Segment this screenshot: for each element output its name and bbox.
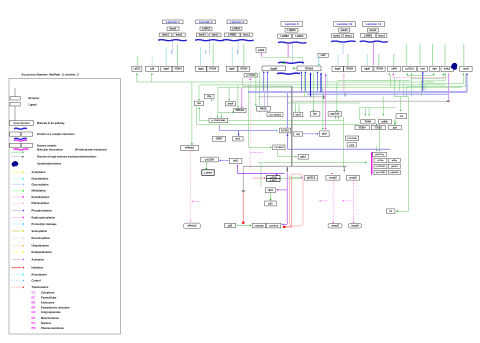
svg-text:lamc1: lamc1 [243,34,250,37]
arrowhead green into p53b [269,199,271,201]
node node p53 bottom [225,223,236,227]
legend Ubiquitination arrowhead [23,245,25,247]
arrowhead green up right boxes [442,73,444,74]
wire green fan y83.6 [425,83,463,85]
node node lama5 [368,28,379,32]
svg-text:ITGB4: ITGB4 [359,126,367,129]
node legend complex box 2 [22,132,33,136]
arrowhead magenta into complex [301,177,303,179]
svg-text:Palmitoylation: Palmitoylation [32,201,50,205]
arrowhead green below ppp b [338,118,340,119]
node node LOC1001 [374,164,387,168]
node node lama1 [167,27,179,31]
wire green corner LOC-gab1 [277,150,279,157]
node node lama5 [339,28,350,32]
wire blue branch to SHC [238,131,240,135]
wire green stub right [433,73,435,76]
arrowhead violet into PRKCA [241,107,243,108]
wire green vertical x217 [217,113,219,117]
legend Translocation arrowhead [23,286,25,288]
node node itga6 membrane [196,66,207,71]
svg-text:ap-100B: ap-100B [376,172,385,174]
wire green into pxn box [364,108,366,115]
wire green drop [151,73,153,82]
node node lamb1 [160,33,172,37]
node node akt1 [265,188,275,193]
arrowhead green between integrins [293,67,295,69]
svg-text:Extracellular: Extracellular [41,296,57,300]
node node lamb1 [197,33,209,37]
wire red into cdkn1a pair [285,226,292,228]
svg-text:pxn: pxn [393,126,398,129]
svg-text:gab1: gab1 [300,156,306,159]
arrowhead violet into akt box [276,175,278,176]
wire green vertical under ITGB4W b [313,72,315,110]
svg-text:smad3: smad3 [349,177,357,180]
wire magenta dash y200 b [343,200,351,202]
wire green vertical x199 [198,85,200,99]
legend Sumoylation arrowhead [23,230,25,232]
wire green stub row2c [395,120,397,123]
legend dissociation arrowhead [22,151,24,153]
legend Dephosphorylation arrowhead [23,216,25,218]
wire green erbb2 to membrane [261,56,302,58]
arrowhead green into fyn [313,110,315,111]
wire blue thick vertical x310 [310,74,312,97]
svg-text:lamb1: lamb1 [162,34,170,37]
wire blue ras to ptk2 [303,133,317,135]
node node lamc1 [173,33,185,37]
svg-text:itga6: itga6 [364,68,370,71]
arrowhead green into gab1 [296,156,297,158]
wire green stub above membrane [432,44,434,66]
wire green vertical x248 [247,85,249,147]
wire gray y86 [243,85,292,87]
svg-text:PRKCA: PRKCA [236,109,245,112]
arrowhead magenta up x326 [325,74,327,75]
node node ITGB4 membrane [172,66,184,71]
arrowhead green into yes1 b [298,111,300,112]
wire green vertical x383 [382,97,384,115]
arrowhead blue up into ITGB4 [317,72,319,73]
svg-text:lama1: lama1 [170,28,177,31]
svg-text:CY: CY [32,291,36,295]
svg-text:LAMB2: LAMB2 [228,34,237,37]
legend Ubiquitination wire [12,245,22,247]
wire green stub above membrane [212,44,214,66]
wire violet horizontal y173 [238,172,285,174]
svg-text:CDKN1A: CDKN1A [269,224,279,227]
node node erbb2 membrane [441,66,453,71]
wire dark stub to smad [343,166,345,170]
arrowhead dark into smad area [343,171,345,172]
wire green stub above membrane [243,44,245,66]
wire violet vertical x449 [448,75,450,101]
arrowhead blue up into itga6 [263,71,265,72]
svg-text:LOC1001: LOC1001 [376,166,386,168]
node node eif4ebp1 nuclear [184,223,201,229]
Laminin 5 membrane squiggle [278,42,306,43]
svg-text:rsu1: rsu1 [349,144,355,147]
node node gab1 [298,154,308,159]
wire magenta dash y200 a [320,200,328,202]
inhibition tick on gray y97 [322,95,325,99]
node node irs [387,209,396,213]
svg-text:ITGB4: ITGB4 [175,68,183,71]
svg-text:MT: MT [32,316,36,320]
wire cyan stub above membrane [200,47,202,66]
legend autophosphorylation blob [12,161,18,166]
node node complex pLRC [305,176,318,181]
node node itga6 central [262,66,286,71]
svg-text:(Protein-protein interaction): (Protein-protein interaction) [75,149,107,152]
wire green stub yes1 a [295,103,297,111]
svg-text:itga6: itga6 [229,68,235,71]
svg-text:Laminin 11: Laminin 11 [366,22,382,26]
wire laminin1 stem [172,41,174,54]
wire green stub right [444,73,446,81]
wire green long horizontal y162 [258,162,365,164]
wire pink stub x393 [392,75,394,78]
svg-text:met: met [420,68,424,71]
svg-text:GO: GO [32,310,36,314]
arrowhead green into ptk2 [322,128,324,129]
endosome compartment salmon outline [289,174,303,226]
svg-text:Accession Number: NetPath_3; n: Accession Number: NetPath_3; netslim_3 [21,73,79,77]
arrowhead green under DSP [211,100,213,101]
svg-text:Deacetylation: Deacetylation [32,177,49,181]
svg-text:pik3r3: pik3r3 [391,166,398,168]
svg-text:Laminin 4: Laminin 4 [230,20,244,24]
legend Proteolytic cleavage wire [12,223,22,225]
node node DST [194,101,204,105]
node node smad3 [346,176,359,181]
node node p110a [374,158,387,162]
node node lamc1 [210,33,222,37]
wire lavender hsp to cy [221,159,230,161]
arrowhead magenta y77 right [448,73,450,74]
node node ptk2b [378,120,391,124]
svg-text:ITGB2: ITGB2 [375,126,383,129]
wire green long horizontal y124 [197,123,360,125]
svg-text:p53: p53 [228,224,233,227]
arrowhead green up right boxes [444,73,446,74]
wire blue thick vertical x321 [320,74,322,92]
legend Inhibition arrowhead [23,266,25,268]
node node cdkn1a b [266,223,281,228]
node node DCTN1 [279,128,290,133]
wire magenta dash y201 eif [193,200,202,202]
node node p-S473 [267,179,280,182]
wire green stub DSP [211,99,213,100]
node node DSP [205,94,215,98]
wire green into pxn box [368,108,370,115]
arrowhead green into PRKCA top [237,106,239,107]
wire blue vertical under ITGB4 [305,72,307,91]
wire green fan y80.9 [422,80,446,82]
wire green stub above membrane [151,56,153,66]
arrowhead green into pi3k bar [365,161,367,163]
node node LAMB3 [278,34,292,38]
svg-text:LAMC2: LAMC2 [295,35,304,38]
wire green stub above membrane [444,44,446,66]
svg-text:cd9: cd9 [150,68,155,71]
wire cyan stub above membrane [165,47,167,66]
wire green vertical x229 [228,87,230,99]
wire blue vertical under itga6 [267,71,269,91]
svg-text:cd151: cd151 [134,68,141,71]
arrowhead green into irs [396,210,398,212]
wire green long horizontal y121 [199,120,343,122]
svg-text:Proteolytic cleavage: Proteolytic cleavage [32,222,58,226]
wire gray y166 [243,165,347,167]
wire green stub right [411,73,413,78]
legend Desumoylation arrowhead [23,237,25,239]
svg-text:smad2: smad2 [329,177,337,180]
arrowhead blue up into ITGB4 [305,72,307,73]
node node smad2 nuclear [328,224,342,229]
wire green fan y86.7 [407,86,466,88]
node node mdkGa5 [388,170,400,174]
arrowhead violet up into hsp [237,165,239,166]
wire violet vertical x242 [241,89,243,108]
wire green vertical x343 [342,117,344,168]
svg-text:smad3: smad3 [351,225,359,228]
node node p53 mid [265,201,277,206]
wire laminin5 stem blue [292,44,294,65]
svg-text:Plasma membrane: Plasma membrane [41,326,64,330]
svg-text:Proteins in a complex interact: Proteins in a complex interaction [37,133,75,136]
wire laminin5 stem magenta [287,44,289,58]
wire green vertical x425 [424,84,426,92]
svg-text:LAMB2: LAMB2 [364,34,373,37]
wire green vertical x411 [411,79,413,97]
svg-text:LAMA2: LAMA2 [232,28,241,31]
wire green vertical x323 [322,87,324,128]
node node itga6 membrane [332,66,343,71]
node node LOC4003 [273,145,285,150]
legend Activation wire [12,259,22,261]
svg-text:lamc1: lamc1 [378,34,385,37]
node node PXN4 [361,120,375,124]
wire blue vertical x423 [422,72,424,91]
svg-text:Receptor: Receptor [29,97,40,100]
wire cyan stub above membrane [337,54,339,66]
svg-text:mst4: mst4 [228,103,234,106]
svg-text:LAMA3: LAMA3 [287,29,296,32]
wire green stub yes1 b [298,103,300,111]
legend Methylation wire [12,190,22,192]
wire [12,156,21,158]
wire lavender vertical x287 [287,93,289,149]
svg-text:rab7: rab7 [321,54,327,57]
node node ras [293,132,303,136]
svg-text:Demethylation: Demethylation [32,195,50,199]
svg-text:lama5: lama5 [341,29,348,32]
violet binding dot central [287,62,289,64]
legend Acetylation arrowhead [23,171,25,173]
arrowhead blue up into itga6 [267,71,269,72]
arrowhead magenta up from smad2 [331,173,333,174]
arrowhead green pxn2 [382,115,384,116]
wire green vertical x403 [403,84,405,97]
svg-text:LAMA2: LAMA2 [202,28,211,31]
svg-text:Phosphorylation: Phosphorylation [32,209,53,213]
svg-text:Laminin 1: Laminin 1 [166,20,180,24]
node node tyk2 [229,158,242,163]
wire green akt to complex [280,178,301,180]
node node itga6 membrane [226,66,237,71]
wire green horizontal y80 [337,79,410,81]
inhibition tick bottom x244 [242,190,245,193]
legend Activation arrowhead [23,258,25,260]
wire magenta vertical x326 [325,74,327,128]
svg-text:DCTN1: DCTN1 [281,130,289,132]
arrowhead green pxn [368,115,370,116]
wire green between integrins [293,67,297,69]
node node LAMA2 [231,27,243,31]
svg-text:Reaction through unknown mecha: Reaction through unknown mechanism/inter… [37,156,97,159]
node node mst [225,102,235,106]
legend Deubiquitination arrowhead [23,251,25,253]
wire green down to ITGB4 [302,57,304,64]
node node erbb2 upper [256,48,266,53]
wire green mdm2 to p53 [270,193,272,200]
node node yes1 [294,113,303,117]
arrowhead blue thick x310 [309,73,311,75]
svg-text:Ligand: Ligand [29,103,38,106]
svg-text:itga6: itga6 [271,66,278,70]
svg-text:dsp: dsp [207,95,212,98]
wire green bracket left [358,108,360,120]
wire green cy to dark box [205,162,207,168]
arrowhead blue x467 [466,73,468,75]
Laminin 1 membrane squiggle [158,40,187,41]
wire gray stub under pY1494 [242,77,244,86]
arrowhead green into PIK3 [255,105,257,106]
arrowhead green into dark box [205,168,207,169]
node node met membrane [418,66,428,71]
svg-text:eps8: eps8 [463,68,469,71]
node node ITGB4 central [297,66,321,71]
wire [14,106,16,121]
arrowhead green into src [400,110,402,111]
wire green vertical x256 [255,72,257,105]
central lower membrane squiggle [277,73,300,74]
svg-text:Methylation: Methylation [32,189,47,193]
arrowhead blue into ptk2 [317,133,318,135]
wire green vertical x395 [394,119,396,124]
svg-text:eif4ebp1: eif4ebp1 [185,147,195,150]
legend Desumoylation wire [12,237,22,239]
wire lavender vertical to LOC a [264,93,266,112]
node node phosphosite p-S1356 [201,157,219,162]
node node lamc1 [343,33,354,37]
node node rab7 [318,53,328,57]
wire violet vertical x287 lower [286,173,288,225]
wire violet bottom corner [283,223,287,225]
wire green vertical x421 [421,81,423,97]
arrowhead row2c [395,123,397,124]
svg-text:yes1: yes1 [296,114,302,117]
arrowhead green into ppp box [336,110,338,111]
Laminin 10 membrane squiggle [331,41,356,42]
wire laminin10 stem [342,43,344,55]
arrowhead pink x344 [343,74,345,75]
node node smad2 [326,176,340,181]
wire green stub pi3k [375,146,377,149]
wire green bracket horizontal [359,107,396,109]
node node rsu1 [347,143,356,147]
svg-text:p[LRC]i: p[LRC]i [307,178,316,180]
node node LAMC2 [293,34,307,38]
node node ITGB4 c2 [355,125,369,129]
wire lavender horizontal y149 [288,148,391,150]
node node eif4ebp1 [181,145,199,150]
wire red inner endosome [291,176,293,227]
svg-text:ITGB4: ITGB4 [305,66,314,70]
legend Recruitment wire [12,274,22,276]
svg-text:p-S1356: p-S1356 [205,159,215,161]
node node pik3r1 header [373,152,387,156]
wire green fan y78.5 [412,78,444,80]
legend Phosphorylation wire [12,210,22,212]
arrowhead green up right boxes [411,73,413,74]
wire green stub ppp down a [335,116,337,118]
node node ITGB4 membrane [374,66,385,71]
wire green stub right [406,73,408,76]
arrowhead green into PRKCA [232,111,233,113]
svg-text:p55g: p55g [392,160,398,162]
wire green p53 to cdkn1a [236,225,250,227]
svg-text:PM: PM [32,326,37,330]
arrowhead green row2 [394,124,396,125]
arrowhead blue into SHC [238,134,240,135]
arrowhead green pxn [364,115,366,116]
wire blue vertical under ITGB4 [317,72,319,91]
wire green vertical x401 [400,97,402,110]
arrowhead green up right boxes [406,73,408,74]
wire green into complex2 [290,177,302,179]
wire green stub above membrane [405,44,407,66]
arrowhead green up into membrane box [151,73,153,75]
arrowhead pink into eif4e bottom [190,221,192,222]
legend Glycosylation arrowhead [23,183,25,185]
svg-text:Gene Symbol: Gene Symbol [14,122,30,125]
wire cyan rab7 down [318,57,320,64]
wire pink dotted x250 translocation [249,81,251,171]
legend Palmitoylation wire [12,202,22,204]
node node ap100B [374,170,387,174]
wire cyan vertical x327 [326,74,328,87]
node node ITGB2 [371,125,385,129]
legend Dephosphorylation wire [12,217,22,219]
legend dissociation wire green [11,151,22,153]
svg-text:p-4E/BP: p-4E/BP [204,171,213,174]
legend dissociation squiggle [14,149,29,150]
wire green stub above membrane [393,54,395,66]
legend Deubiquitination wire [12,251,22,253]
arrowhead green into pY box 2 [221,117,223,118]
node node LAMB2 [225,33,241,37]
wire green vertical x379 to pi3k [378,124,380,149]
wire blue band y92 [248,91,467,93]
node node cd9 membrane [146,66,159,71]
legend protein complex squiggle [14,128,27,129]
wire green long horizontal y87 [218,86,462,88]
node node ITGB4 membrane [207,66,219,71]
Laminin 4 membrane squiggle [223,40,254,41]
